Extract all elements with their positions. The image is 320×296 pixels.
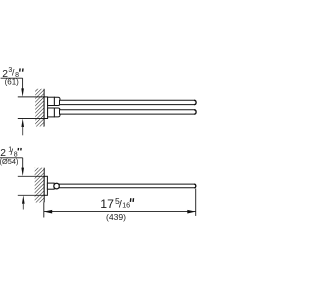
arrow left (dim 439) [44, 210, 52, 214]
arm 2 hub (rounded) [54, 108, 60, 117]
wall hatch (plan view) [35, 168, 45, 203]
arrow up tail [22, 203, 24, 209]
extension line right (439) [195, 189, 197, 216]
svg-text:(Ø54): (Ø54) [0, 157, 18, 166]
label "2 3/8 inch" [2, 67, 23, 80]
pivot ball (plan view) [54, 183, 60, 189]
arm 1 hub (rounded) [54, 97, 60, 105]
leader line down to top extension [22, 78, 24, 92]
label underline (Ø54 label) [0, 157, 23, 159]
svg-text:17: 17 [100, 197, 114, 211]
wall plate (plan view) [44, 176, 47, 195]
arrow right (dim 439) [187, 210, 195, 214]
leader line down to top extension [22, 158, 24, 171]
label underline (61 label) [1, 77, 23, 79]
wall hatch (side view) [35, 89, 44, 127]
svg-text:16: 16 [122, 200, 130, 209]
arrow down (dim 61 top) [21, 88, 24, 97]
arrow up (dim 54 bottom) [22, 195, 25, 204]
extension line bottom (y=118.5) [18, 118, 46, 120]
bar 1 (upper arm) [60, 100, 197, 104]
extension line bottom (y=195.3) [18, 194, 45, 196]
arm 2 block [48, 108, 55, 117]
wall face line (plan view) [43, 168, 45, 203]
bar 2 (lower arm) [60, 110, 197, 114]
post stem (plan view) [47, 183, 54, 189]
label "2 1/8 inch" [0, 146, 21, 159]
extension line top (y=176.3) [18, 175, 45, 177]
svg-text:(61): (61) [5, 77, 20, 86]
dimension line 439 [44, 211, 196, 213]
label "17 5/16 inch" [100, 196, 133, 211]
arrow down (dim 54 top) [21, 168, 24, 177]
extension line top (y=96.9) [18, 96, 46, 98]
wall face line (side view) [43, 89, 45, 127]
plan bar end cap [194, 184, 196, 188]
bar 1 end cap [194, 100, 196, 104]
wall plate (side view) [44, 97, 48, 119]
arrow up tail [22, 127, 24, 136]
bar 2 end cap [194, 110, 196, 114]
bar (plan view) [59, 184, 196, 188]
arm 1 block [48, 97, 55, 105]
extension line left (439) [43, 203, 45, 218]
arrow up (dim 61 bottom) [21, 119, 24, 128]
svg-text:(439): (439) [106, 212, 126, 222]
